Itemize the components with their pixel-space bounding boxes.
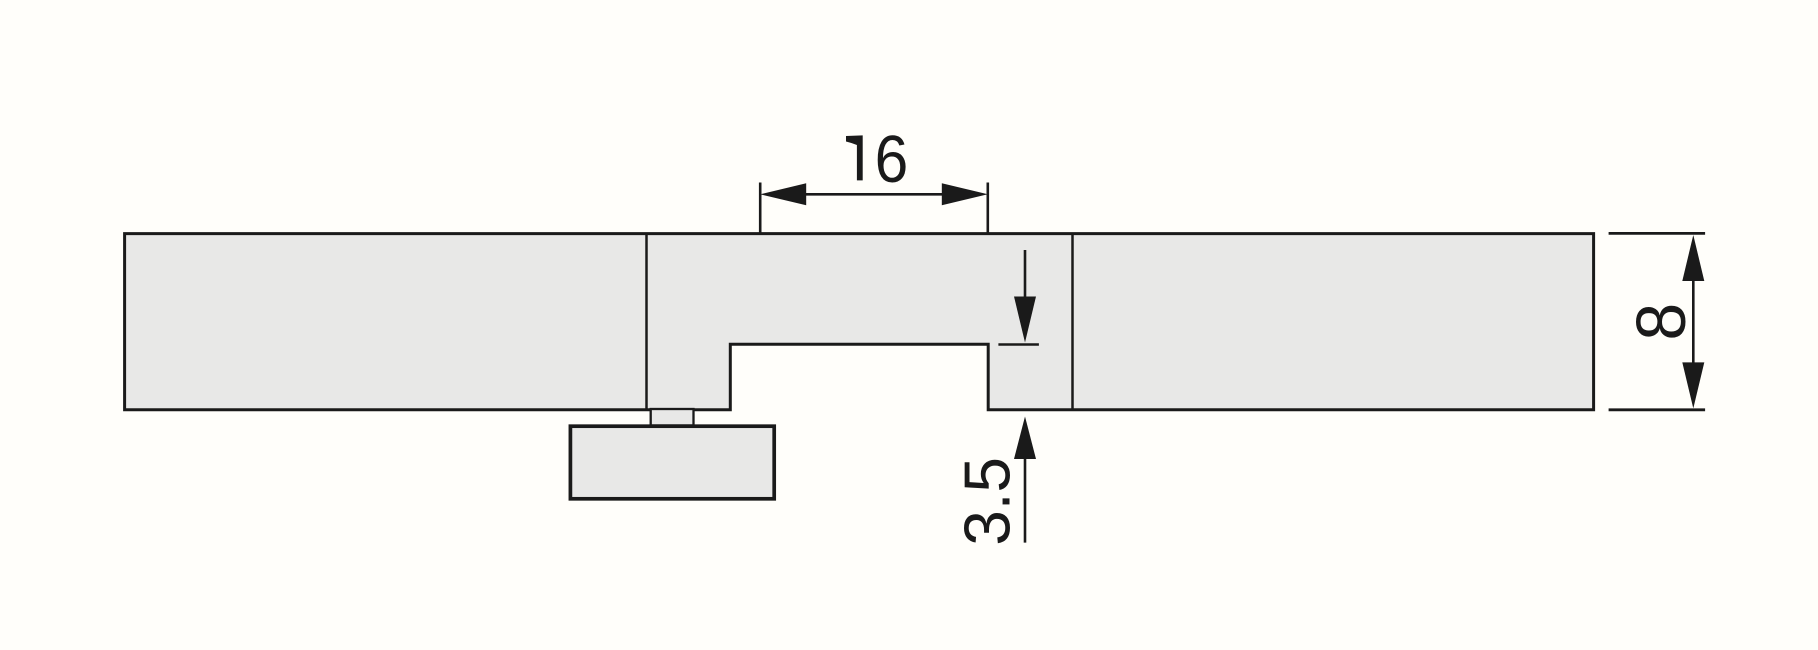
dimension 8: top extension line [1609, 232, 1706, 235]
joint line right (between centre piece and right panel) [1071, 234, 1074, 410]
panel cross-section outline (left panel + centre fitting piece + right panel with notch) [125, 234, 1594, 410]
dimension 8: bottom arrowhead [1682, 362, 1704, 408]
fastener neck (small stem below centre piece) [651, 409, 694, 426]
dimension 8: dimension line [1692, 280, 1695, 363]
dimension 3.5: upper leader line [1024, 250, 1027, 298]
dimension 3.5: reference tick at notch depth [998, 343, 1039, 346]
svg-text:8: 8 [1622, 303, 1700, 341]
joint line left (between left panel and centre piece) [645, 234, 648, 410]
dimension 16: right extension line [986, 183, 989, 234]
dimension 8: bottom extension line [1609, 408, 1706, 411]
dimension 16: left arrowhead [760, 183, 806, 205]
dimension 16: dimension line with arrowheads [806, 193, 942, 196]
dimension 16: left extension line [759, 183, 762, 234]
svg-text:6: 6 [875, 121, 909, 197]
dimension 3.5: upper arrowhead (pointing down) [1014, 297, 1036, 343]
svg-text:3.5: 3.5 [951, 457, 1024, 546]
dimension 8: top arrowhead [1682, 235, 1704, 281]
dimension 3.5: lower arrowhead (pointing up) [1014, 417, 1036, 460]
dimension 16: label text digit 1 (custom glyph, no foot serif) [846, 135, 863, 180]
dimension 3.5: lower leader line [1024, 458, 1027, 543]
fastener head (knob rectangle) [570, 426, 774, 499]
dimension 16: right arrowhead [942, 183, 988, 205]
